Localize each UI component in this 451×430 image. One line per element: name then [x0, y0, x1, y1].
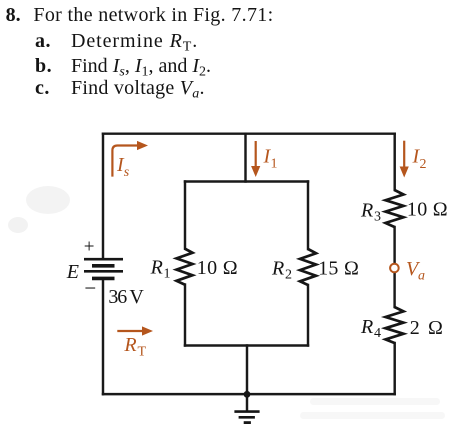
svg-text:2: 2 [285, 268, 292, 283]
svg-text:a.: a. [35, 30, 51, 52]
svg-text:15 Ω: 15 Ω [318, 258, 359, 280]
svg-text:R: R [360, 316, 373, 338]
svg-text:R: R [123, 334, 136, 356]
svg-text:c.: c. [35, 77, 50, 99]
svg-text:Determine RT.: Determine RT. [71, 30, 198, 55]
svg-text:R: R [271, 258, 284, 280]
svg-text:Find Is, I1, and I2.: Find Is, I1, and I2. [71, 55, 211, 80]
svg-text:R: R [150, 257, 163, 279]
svg-text:T: T [138, 345, 147, 360]
svg-text:s: s [124, 165, 130, 180]
svg-text:−: − [84, 276, 96, 300]
svg-text:+: + [84, 237, 95, 258]
svg-text:3: 3 [374, 209, 381, 224]
svg-text:1: 1 [271, 157, 278, 172]
svg-text:36 V: 36 V [108, 286, 144, 308]
svg-text:10 Ω: 10 Ω [197, 257, 238, 279]
svg-text:a: a [418, 269, 425, 284]
svg-text:8.: 8. [6, 4, 21, 26]
svg-text:b.: b. [35, 55, 52, 77]
svg-text:2 Ω: 2 Ω [410, 317, 445, 339]
svg-text:R: R [360, 199, 373, 221]
svg-text:For the network in Fig. 7.71:: For the network in Fig. 7.71: [33, 4, 273, 26]
svg-text:10 Ω: 10 Ω [407, 199, 448, 221]
svg-text:Find voltage Va.: Find voltage Va. [71, 77, 205, 102]
svg-text:E: E [66, 261, 79, 283]
svg-text:2: 2 [420, 157, 427, 172]
svg-text:1: 1 [164, 267, 171, 282]
svg-text:4: 4 [374, 326, 381, 341]
